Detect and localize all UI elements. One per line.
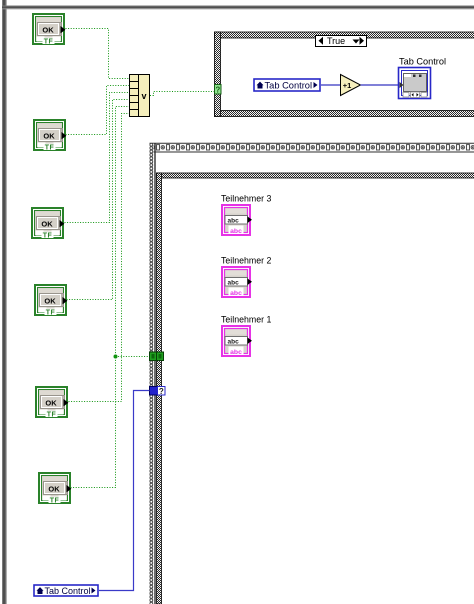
while loop border (left edge) <box>2 0 3 604</box>
wire B3 to OR input 3 <box>65 93 130 223</box>
string control Teilnehmer 2 <box>222 267 252 297</box>
wire B4 to OR input 4 <box>67 100 130 300</box>
svg-text:abc: abc <box>230 290 242 297</box>
svg-text:TF: TF <box>47 412 57 419</box>
svg-text:Teilnehmer 2: Teilnehmer 2 <box>221 256 271 266</box>
svg-text:OK: OK <box>44 297 56 306</box>
svg-text:v: v <box>141 91 146 101</box>
boolean OK button terminal B1 <box>33 14 65 46</box>
event structure border (top) <box>150 143 474 152</box>
inner case structure border (left) <box>157 173 162 604</box>
while loop border (top edge) <box>2 6 474 7</box>
terminal Tab Control icon <box>399 68 431 99</box>
boolean OK button terminal B2 <box>34 120 66 152</box>
wire B5 to OR input 6 <box>69 114 130 402</box>
local variable Tab Control (in case) <box>254 79 320 91</box>
wire B1 to OR input 1 <box>66 29 130 79</box>
boolean OK button terminal B6 <box>39 473 71 505</box>
wire branch to event tunnel <box>116 356 150 358</box>
wire OR output to case tunnel <box>150 92 215 96</box>
wire local variable to increment <box>321 84 340 86</box>
blue tunnel on event border <box>150 387 158 396</box>
svg-text:TF: TF <box>44 39 54 46</box>
svg-text:abc: abc <box>228 280 240 287</box>
case selector ? tunnel <box>158 387 166 397</box>
svg-text:?: ? <box>159 387 164 396</box>
svg-text:TF: TF <box>45 145 55 152</box>
blue wire bottom Tab Control to selector tunnel <box>99 391 150 591</box>
svg-text:Tab Control: Tab Control <box>265 80 313 90</box>
svg-text:OK: OK <box>41 220 53 229</box>
string control Teilnehmer 1 <box>222 326 252 356</box>
wire B2 to OR input 2 <box>66 86 130 135</box>
increment +1 node <box>341 75 361 96</box>
svg-text:OK: OK <box>42 26 54 35</box>
svg-text:+1: +1 <box>343 81 352 90</box>
svg-text:Tab Control: Tab Control <box>45 586 91 596</box>
event structure border (left) <box>150 143 156 604</box>
svg-text:Tab Control: Tab Control <box>399 57 446 67</box>
svg-text:OK: OK <box>45 399 57 408</box>
inner case structure border (top) <box>157 173 474 178</box>
svg-text:?: ? <box>215 86 220 95</box>
svg-text:abc: abc <box>228 218 240 225</box>
wire B6 to OR input 5 <box>71 107 130 488</box>
string control Teilnehmer 3 <box>222 205 252 235</box>
boolean tunnel on inner case border <box>157 352 164 361</box>
svg-text:OK: OK <box>48 485 60 494</box>
svg-text:Teilnehmer 3: Teilnehmer 3 <box>221 194 271 204</box>
svg-text:True: True <box>327 36 345 46</box>
boolean ? tunnel on case border <box>215 85 222 95</box>
wire junction dot <box>114 355 118 359</box>
boolean OK button terminal B3 <box>32 208 64 240</box>
svg-text:abc: abc <box>230 349 242 356</box>
svg-text:Teilnehmer 1: Teilnehmer 1 <box>221 315 271 325</box>
boolean OK button terminal B5 <box>36 387 68 419</box>
case selector label True <box>316 36 367 47</box>
svg-text:OK: OK <box>43 132 55 141</box>
compound arithmetic OR node <box>130 75 150 117</box>
svg-text:abc: abc <box>230 228 242 235</box>
boolean OK button terminal B4 <box>35 285 67 317</box>
svg-text:TF: TF <box>46 310 56 317</box>
case structure True border <box>215 32 474 117</box>
svg-text:TF: TF <box>43 233 53 240</box>
svg-text:TF: TF <box>50 498 60 505</box>
wire increment to terminal <box>361 84 400 86</box>
boolean tunnel on event border <box>150 352 157 361</box>
local variable Tab Control (bottom) <box>34 585 98 596</box>
svg-text:abc: abc <box>228 339 240 346</box>
